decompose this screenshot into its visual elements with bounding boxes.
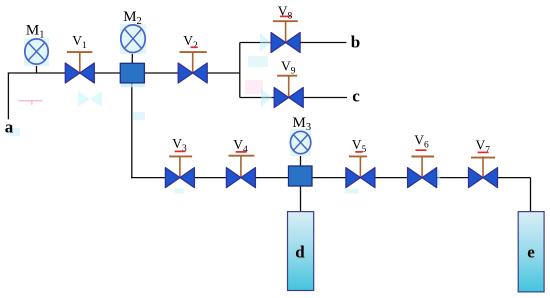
wire: branch b horizontal <box>240 42 347 44</box>
wire: top main horizontal a to branch <box>8 72 240 74</box>
artifact: cyan ghost bowtie below V1 <box>78 91 102 107</box>
artifact: cyan patch below junction 1 <box>133 112 145 120</box>
artifact: cyan patch at branch <box>248 56 268 67</box>
red tick V2 <box>191 46 198 48</box>
svg-text:b: b <box>351 32 360 51</box>
artifact: pink patch at branch <box>245 80 263 94</box>
valve V8 <box>271 21 300 52</box>
meter M3 <box>290 131 310 153</box>
artifact: cyan band below junction 1 <box>121 84 145 88</box>
handle bar V7 <box>471 157 495 159</box>
valve V2 <box>178 52 207 83</box>
red tick V4 <box>236 151 247 153</box>
artifact: cyan patch below V5 <box>345 189 359 194</box>
wire: vertical down to cylinder e <box>530 178 532 213</box>
wire: M2 stem <box>131 51 133 64</box>
artifact: pink ghost handle near a <box>19 101 43 105</box>
svg-text:e: e <box>527 243 535 262</box>
junction block J1 <box>120 63 144 83</box>
meter M3 backing <box>290 129 311 156</box>
handle bar V4 <box>229 155 255 157</box>
wire: branch c horizontal <box>240 97 347 99</box>
cylinder e <box>518 212 544 292</box>
handle bar V6 <box>411 156 434 158</box>
red tick V8 <box>280 15 291 17</box>
handle bar V8 <box>273 20 298 22</box>
wire: vertical from junction 1 down <box>131 83 133 179</box>
valve V7 <box>469 156 498 187</box>
wire: M3 stem <box>300 152 302 167</box>
svg-text:d: d <box>295 242 305 261</box>
red tick V6 <box>415 149 426 151</box>
valve V4 <box>226 156 255 187</box>
cylinder d <box>288 212 314 291</box>
red tick V5 <box>355 151 362 153</box>
artifact: cyan patch below a-line <box>8 128 20 136</box>
wire: M1 stem <box>36 62 38 73</box>
svg-text:a: a <box>5 117 14 136</box>
red tick V7 <box>478 151 489 153</box>
junction block J2 <box>289 166 313 186</box>
wire: inlet a vertical <box>7 73 9 119</box>
artifact: cyan sliver right of V6 <box>435 170 440 185</box>
meter M2 <box>121 25 145 53</box>
artifact: cyan ghost left of V9 <box>261 89 272 107</box>
handle bar V9 <box>277 75 297 77</box>
meter M1 <box>25 39 48 64</box>
red tick V3 <box>175 150 186 152</box>
meter M2 backing <box>120 24 146 54</box>
valve V6 <box>408 156 437 187</box>
valve V3 <box>165 156 194 187</box>
meter M1 backing <box>24 38 49 66</box>
valve V1 <box>65 52 94 83</box>
svg-text:c: c <box>352 86 360 105</box>
artifact: cyan ghost left of V8 <box>260 33 271 52</box>
artifact: cyan patch below V3 <box>175 189 184 194</box>
wire: bottom main horizontal <box>131 177 530 179</box>
handle bar V5 <box>349 155 367 157</box>
handle bar V3 <box>169 155 192 157</box>
handle bar V2 <box>180 51 207 53</box>
valve V9 <box>274 76 303 107</box>
wire: junction 2 stem down to cylinder d <box>300 185 302 212</box>
valve V5 <box>346 156 375 187</box>
wire: branch vertical <box>239 43 241 98</box>
handle bar V1 <box>67 51 92 53</box>
